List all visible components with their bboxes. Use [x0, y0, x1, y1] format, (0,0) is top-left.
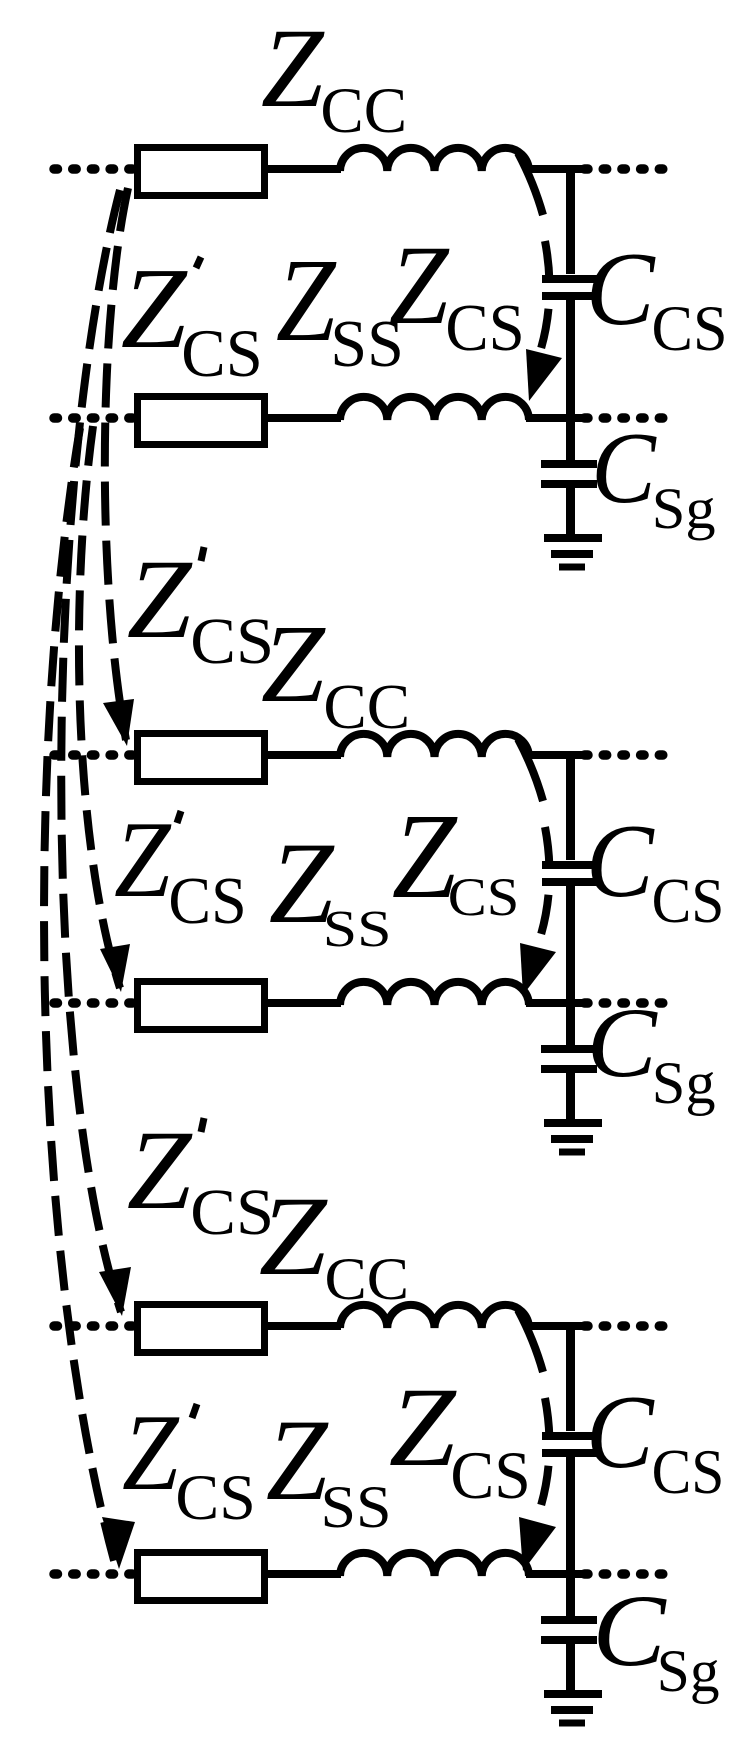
wire dotted left stub line S3	[54, 1569, 134, 1579]
svg-text:CS: CS	[445, 292, 524, 365]
wire CSg-to-ground section 3	[566, 1644, 575, 1694]
wire node-to-CCS capacitor section 2	[566, 751, 575, 860]
arrowhead Z'CS at S2 resistor	[100, 944, 130, 992]
wire CSg-to-ground section 1	[566, 488, 575, 538]
wire dotted right stub line C2	[585, 750, 669, 760]
wire inductor-to-node C1	[526, 165, 584, 173]
wire dashed coupling arc Z'CS S1-to-S3	[44, 428, 115, 1564]
svg-text:Z: Z	[261, 603, 326, 726]
svg-text:Sg: Sg	[652, 1050, 716, 1117]
inductor LS1	[340, 397, 529, 420]
capacitor CCS section 3	[542, 1432, 598, 1440]
arrowhead coupling ZCS section 3	[519, 1517, 556, 1571]
wire inductor-to-node S1	[526, 414, 584, 422]
wire dashed coupling arc ZCS section 1	[540, 241, 549, 352]
wire inductor tail into coupling arc C3	[518, 1310, 543, 1372]
svg-text:CS: CS	[652, 293, 728, 364]
svg-text:SS: SS	[321, 1475, 392, 1541]
ground section 1	[544, 534, 602, 542]
inductor LS2	[340, 982, 529, 1005]
ground section 3	[544, 1690, 602, 1698]
svg-text:Z: Z	[121, 245, 189, 372]
svg-text:Z: Z	[259, 1173, 328, 1299]
wire dashed coupling arc Z'CS C1-to-C3	[61, 190, 121, 1312]
svg-text:Z: Z	[276, 235, 337, 366]
wire CCS-to-S-node section 2	[566, 886, 575, 1007]
svg-text:Z: Z	[261, 5, 325, 131]
wire dotted right stub line C3	[585, 1321, 669, 1331]
wire dashed coupling arc Z'CS S1-to-S2	[79, 426, 120, 988]
svg-text:Z: Z	[122, 1392, 180, 1513]
svg-text:CS: CS	[652, 1437, 725, 1507]
label Z'CS top-left section2 prime	[201, 547, 204, 561]
wire S-node-to-CSg section 2	[566, 1003, 575, 1045]
svg-text:CC: CC	[323, 672, 410, 742]
svg-text:Z: Z	[114, 799, 172, 920]
wire resistor-to-inductor C2	[268, 751, 341, 759]
wire resistor-to-inductor C3	[268, 1322, 341, 1330]
resistor S2	[138, 982, 265, 1030]
wire dotted left stub line S1	[54, 413, 134, 423]
wire inductor-to-node C3	[526, 1322, 584, 1330]
svg-text:CS: CS	[448, 868, 520, 927]
resistor S3	[138, 1553, 265, 1601]
inductor LC3	[340, 1305, 529, 1328]
capacitor CSg section 3	[541, 1616, 597, 1624]
resistor C1	[138, 148, 265, 196]
arrowhead coupling ZCS section 2	[520, 943, 556, 995]
svg-text:C: C	[586, 804, 655, 920]
label Z'CS mid-left section3 prime	[192, 1404, 197, 1418]
svg-text:CS: CS	[175, 1463, 255, 1534]
label Z'CS mid-left section2 prime	[177, 811, 181, 823]
inductor LS3	[340, 1553, 529, 1576]
arrowhead Z'CS at C2 resistor	[103, 699, 134, 746]
wire node-to-CCS capacitor section 1	[566, 165, 575, 274]
wire inductor-to-node S3	[526, 1570, 584, 1578]
label Z'CS top-left section3 prime	[201, 1118, 204, 1132]
wire resistor-to-inductor S2	[268, 999, 341, 1007]
wire resistor-to-inductor C1	[268, 165, 341, 173]
label Z'CS mid-left section1 prime	[196, 257, 201, 268]
wire dotted left stub line C2	[54, 750, 134, 760]
wire dotted right stub line S3	[585, 1569, 669, 1579]
wire CSg-to-ground section 2	[566, 1073, 575, 1123]
svg-text:C: C	[587, 988, 659, 1098]
svg-text:Sg: Sg	[652, 476, 716, 541]
wire inductor tail into coupling arc C1	[518, 153, 543, 215]
svg-text:Z: Z	[389, 221, 450, 348]
arrowhead Z'CS at S3 resistor	[102, 1517, 135, 1569]
wire dotted left stub line C1	[54, 164, 134, 174]
wire dotted right stub line C1	[585, 164, 669, 174]
arrowhead Z'CS at C3 resistor	[99, 1267, 131, 1316]
resistor C3	[138, 1305, 265, 1353]
svg-text:Z: Z	[127, 1106, 194, 1232]
svg-text:SS: SS	[323, 900, 392, 958]
wire dotted left stub line S2	[54, 998, 134, 1008]
svg-text:Z: Z	[127, 535, 194, 661]
svg-text:CS: CS	[652, 866, 725, 936]
inductor LC2	[340, 734, 529, 757]
wire dotted right stub line S1	[585, 413, 669, 423]
inductor LC1	[340, 148, 529, 171]
wire dotted left stub line C3	[54, 1321, 134, 1331]
capacitor CSg section 1	[541, 460, 597, 468]
wire S-node-to-CSg section 3	[566, 1574, 575, 1616]
wire resistor-to-inductor S1	[268, 414, 341, 422]
wire inductor tail into coupling arc C2	[518, 739, 543, 801]
wire inductor-to-node S2	[526, 999, 584, 1007]
wire dotted right stub line S2	[585, 998, 669, 1008]
svg-text:C: C	[586, 1375, 655, 1491]
wire inductor-to-node C2	[526, 751, 584, 759]
svg-text:CS: CS	[450, 1439, 530, 1513]
svg-text:CS: CS	[168, 865, 246, 938]
svg-text:CS: CS	[181, 316, 263, 392]
wire resistor-to-inductor S3	[268, 1570, 341, 1578]
capacitor CSg section 2	[541, 1045, 597, 1053]
resistor C2	[138, 734, 265, 782]
resistor S1	[138, 397, 265, 445]
svg-text:CC: CC	[320, 75, 407, 147]
svg-text:C: C	[591, 413, 657, 525]
wire dashed coupling arc ZCS section 2	[540, 827, 549, 938]
wire node-to-CCS capacitor section 3	[566, 1322, 575, 1431]
wire CCS-to-S-node section 1	[566, 300, 575, 422]
wire dashed coupling arc Z'CS C1-to-C2	[105, 188, 128, 740]
capacitor CCS section 2	[542, 861, 598, 869]
svg-text:Sg: Sg	[657, 1638, 720, 1704]
wire CCS-to-S-node section 3	[566, 1457, 575, 1578]
svg-text:C: C	[586, 231, 657, 347]
svg-text:Z: Z	[389, 1365, 458, 1490]
capacitor CCS section 1	[542, 275, 598, 283]
wire S-node-to-CSg section 1	[566, 418, 575, 460]
svg-text:CC: CC	[325, 1247, 410, 1313]
arrowhead coupling ZCS section 1	[526, 349, 562, 401]
ground section 2	[544, 1119, 602, 1127]
wire dashed coupling arc ZCS section 3	[540, 1398, 549, 1509]
